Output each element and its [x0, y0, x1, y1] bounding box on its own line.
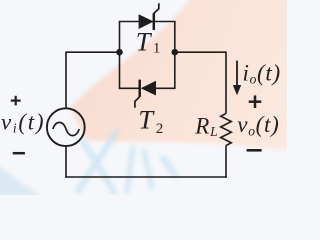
thyristor T1 [139, 3, 159, 30]
resistor RL [221, 114, 232, 146]
wire: top-mid horizontal left segment [66, 51, 120, 53]
svg-text:io(t): io(t) [243, 61, 281, 87]
wire: parallel-branch left vertical [119, 22, 121, 89]
node: left junction [116, 49, 123, 56]
wire: right vertical below resistor [225, 146, 227, 178]
svg-text:vo(t): vo(t) [237, 112, 279, 139]
wire: right vertical above resistor [225, 51, 227, 113]
node: right junction [172, 49, 179, 56]
source vi(t) [47, 108, 85, 146]
wire: top-mid horizontal right segment [175, 51, 226, 53]
label + (left) [11, 96, 21, 106]
svg-text:T: T [138, 105, 155, 135]
wire: branch bottom edge [119, 87, 176, 89]
current arrow io [233, 61, 241, 96]
wire: left vertical (source bottom) [65, 146, 67, 178]
wire: branch top edge [119, 21, 176, 23]
label - (left) [13, 152, 25, 155]
thyristor T2 [135, 80, 156, 108]
svg-text:1: 1 [153, 41, 161, 57]
wire: parallel-branch right vertical [174, 22, 176, 89]
wire: left vertical (source top) [65, 51, 67, 108]
wire: bottom horizontal [65, 176, 227, 178]
svg-text:2: 2 [156, 121, 164, 137]
svg-text:T: T [136, 27, 153, 57]
svg-text:vi(t): vi(t) [1, 110, 45, 136]
label + (right) [249, 95, 262, 108]
source sine symbol [53, 122, 79, 135]
label - (right) [247, 149, 262, 152]
